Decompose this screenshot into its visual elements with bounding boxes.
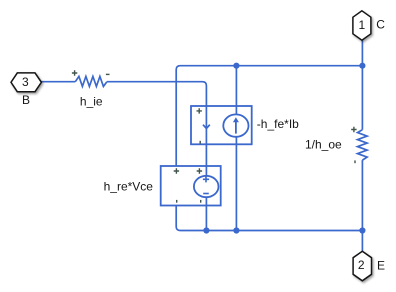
svg-text:-h_fe*Ib: -h_fe*Ib <box>257 117 299 131</box>
svg-text:E: E <box>377 259 385 273</box>
svg-text:3: 3 <box>22 75 29 89</box>
svg-text:1/h_oe: 1/h_oe <box>305 137 342 151</box>
svg-text:h_ie: h_ie <box>80 95 103 109</box>
svg-text:C: C <box>376 18 385 32</box>
svg-text:h_re*Vce: h_re*Vce <box>104 179 154 193</box>
svg-text:B: B <box>22 93 30 107</box>
svg-text:2: 2 <box>358 258 365 272</box>
svg-text:1: 1 <box>358 18 365 32</box>
